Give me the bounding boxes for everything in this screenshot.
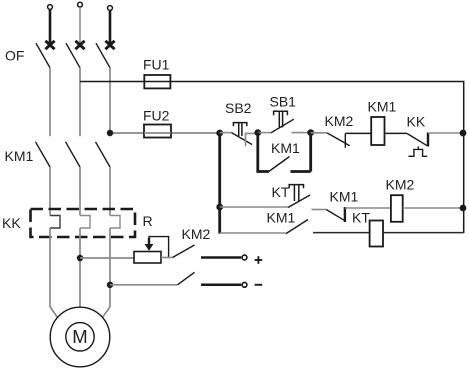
svg-text:KK: KK	[407, 114, 426, 130]
node L2 supply terminal circle	[78, 2, 83, 7]
switch OF pole 2 X handle	[75, 41, 84, 49]
label minus	[255, 284, 263, 286]
pushbutton SB2 fixed contact stub	[246, 133, 259, 146]
contactor KM2 interlock NC blade	[327, 133, 350, 146]
node junction dot SB2-SB1	[254, 129, 261, 136]
contactor KM1 self-holding branch left drop	[256, 133, 259, 172]
svg-text:KM1: KM1	[267, 210, 296, 226]
pushbutton SB1 blade	[271, 119, 294, 133]
contactor KM1 NC blade rung2	[326, 210, 344, 221]
svg-text:KM1: KM1	[368, 99, 397, 115]
thermal relay KK heater element 3	[110, 216, 120, 229]
wire phase 3 segment KK to motor	[103, 228, 110, 317]
node junction dot right rail rung1	[460, 130, 467, 137]
wire braking positive lead to resistor	[80, 257, 134, 259]
svg-text:KM2: KM2	[325, 113, 354, 129]
svg-text:FU2: FU2	[143, 108, 170, 124]
wire L3 supply lead	[109, 11, 112, 47]
coil KT	[370, 221, 383, 247]
switch OF pole 2 blade	[66, 43, 80, 68]
wire through fuse FU1	[144, 81, 170, 83]
wire self-holding bottom left	[256, 170, 268, 173]
contactor KM2 braking contact upper blade	[173, 245, 195, 258]
wire rung3 to KT coil	[313, 232, 370, 234]
node DC positive terminal circle	[242, 255, 247, 260]
wire L1 supply lead	[49, 10, 52, 47]
resistor R slider arrow	[145, 237, 169, 258]
switch OF pole 3 X handle	[105, 41, 114, 49]
node junction dot left control rail top	[216, 130, 223, 137]
wire KT coil to right rail	[383, 232, 464, 234]
thermal relay KK actuator symbol	[408, 146, 427, 156]
contactor KM1 main contact pole 3	[96, 142, 111, 167]
svg-text:OF: OF	[5, 48, 24, 64]
fuse FU2 body	[144, 125, 171, 138]
svg-text:KM1: KM1	[5, 148, 34, 164]
wire KM2 coil to right rail	[403, 207, 464, 209]
pushbutton SB2 blade	[232, 133, 253, 145]
wire KM2 interlock to KM1 coil	[345, 132, 371, 134]
wire braking negative lead	[110, 284, 178, 286]
wire phase 1 segment KM1 to KK	[49, 167, 51, 216]
wire phase 2 segment KM1 to KK	[79, 167, 81, 216]
time relay KT contact plunger	[289, 185, 303, 201]
time relay KT contact blade	[288, 195, 310, 208]
node junction dot right rail rung2	[460, 205, 467, 212]
svg-text:KK: KK	[2, 215, 21, 231]
thermal relay KK NC contact stub	[427, 133, 429, 147]
wire resistor to KM2 contact	[161, 257, 173, 259]
wire self-holding bottom right	[291, 170, 311, 173]
svg-text:KT: KT	[272, 184, 290, 200]
wire rung1 rail to SB2	[220, 132, 232, 134]
node junction dot phase 2 braking tap	[77, 255, 83, 261]
contactor KM1 NO contact blade rung3	[286, 220, 308, 234]
svg-text:M: M	[72, 326, 87, 347]
switch OF pole 1 blade	[36, 43, 50, 68]
contactor KM1 main contact pole 1	[36, 142, 51, 167]
wire left control rail	[218, 133, 221, 234]
contactor KM1 main contact pole 2	[66, 142, 81, 167]
wire phase 1 segment OF to KM1	[49, 68, 51, 136]
pushbutton SB2 plunger	[233, 123, 246, 136]
wire KK contact to right rail	[428, 132, 464, 134]
wire phase 1 segment KK to motor	[50, 228, 57, 317]
switch OF pole 1 X handle	[45, 41, 54, 49]
wire SB1 right terminal	[292, 132, 311, 134]
motor M outer circle	[50, 307, 110, 367]
node L3 supply terminal circle	[108, 6, 113, 11]
contactor KM2 interlock NC stub	[344, 134, 346, 148]
svg-text:KT: KT	[352, 210, 370, 226]
wire KM1 coil to KK contact	[385, 132, 408, 134]
switch OF pole 3 blade	[96, 43, 110, 68]
wire DC negative terminal lead	[201, 284, 241, 287]
wire phase 2 segment KK to motor	[79, 228, 81, 307]
node junction dot phase 3 braking tap	[107, 282, 113, 288]
svg-text:KM2: KM2	[386, 177, 415, 193]
motor M inner circle	[66, 323, 94, 351]
wire L2 supply lead	[79, 7, 81, 46]
thermal relay KK heater element 1	[50, 216, 60, 229]
resistor R body	[134, 252, 161, 264]
contactor KM1 self-holding branch right drop	[309, 133, 312, 172]
coil KM2	[391, 195, 403, 222]
svg-text:KM1: KM1	[330, 189, 359, 205]
wire SB1 left terminal	[258, 132, 271, 134]
contactor KM1 self-holding contact blade	[269, 157, 290, 172]
wire KT contact to KM1 NC contact	[312, 209, 327, 211]
wire phase 3 segment KM1 to KK	[109, 167, 111, 216]
svg-text:SB1: SB1	[270, 94, 297, 110]
coil KM1	[371, 117, 384, 145]
pushbutton SB1 plunger	[274, 111, 288, 127]
wire control rail bottom from phase 3	[110, 132, 220, 134]
contactor KM1 NC stub rung2	[344, 207, 346, 222]
label plus	[255, 256, 263, 264]
svg-text:KM2: KM2	[182, 226, 211, 242]
node junction dot phase 3 control tap	[107, 130, 113, 136]
wire through fuse FU2	[144, 132, 171, 134]
wire DC positive terminal lead	[201, 256, 241, 259]
node DC negative terminal circle	[242, 282, 247, 287]
node junction dot SB1-KM2	[307, 129, 314, 136]
contactor KM2 braking contact lower blade	[178, 272, 195, 285]
svg-text:KM1: KM1	[271, 140, 300, 156]
wire KM2 interlock left terminal	[311, 132, 327, 134]
fuse FU1 body	[144, 75, 170, 88]
wire phase 2 segment OF to KM1	[79, 68, 81, 136]
node L1 supply terminal circle	[48, 5, 53, 10]
svg-text:SB2: SB2	[225, 100, 252, 116]
thermal relay KK heater element 2	[80, 216, 90, 229]
svg-text:R: R	[143, 213, 153, 229]
svg-text:FU1: FU1	[143, 57, 170, 73]
thermal relay KK NC contact blade	[407, 134, 427, 146]
wire rung2 rail to KT contact	[220, 206, 288, 208]
wire phase 3 segment OF to KM1	[109, 68, 111, 136]
thermal relay KK dashed box	[31, 209, 136, 237]
wire rung3 rail to KM1 contact	[220, 232, 286, 234]
node junction dot left rail rung2	[216, 204, 223, 211]
wire KM1 NC to KM2 coil	[345, 207, 391, 209]
wire control rail top from phase 2	[80, 82, 464, 234]
